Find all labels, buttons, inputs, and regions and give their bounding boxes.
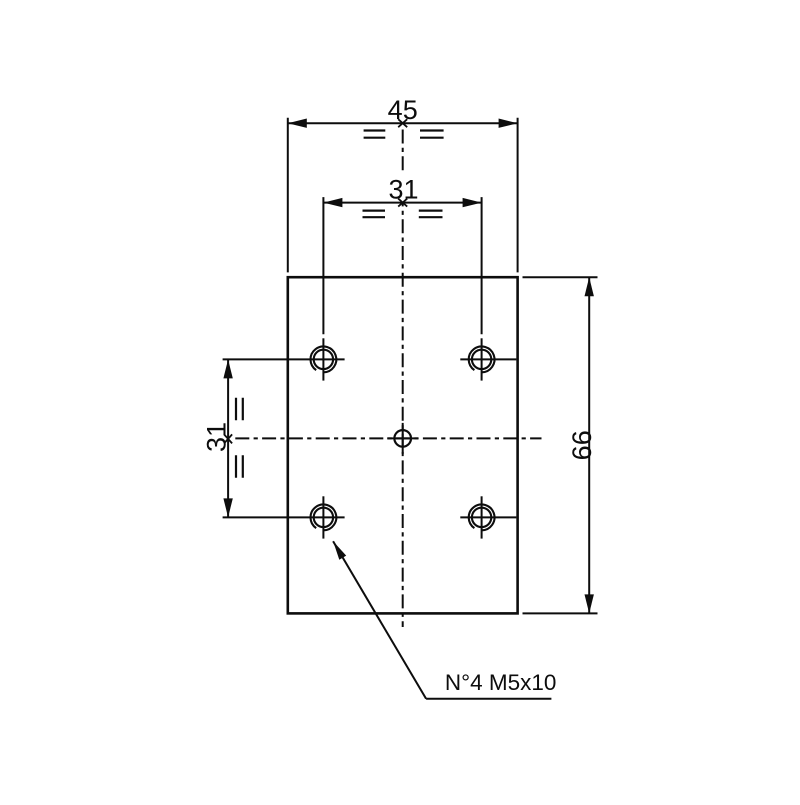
dim 31 left arrow up — [223, 359, 232, 378]
hole upper-left thread arc — [311, 347, 337, 373]
dim 31 top line — [323, 202, 481, 204]
hole lower-right thread arc — [469, 505, 495, 531]
hole lower-right vertical crosshair — [481, 496, 483, 538]
dim 45 arrow right — [499, 119, 518, 128]
leader line diagonal — [333, 541, 426, 699]
dim 31 left symmetry mark upper — [236, 398, 243, 421]
dim 31 top symmetry mark left — [363, 211, 386, 218]
leader line horizontal — [426, 698, 551, 700]
hole upper-left bore circle — [314, 350, 333, 369]
center pilot hole circle — [394, 430, 411, 447]
horizontal centerline — [235, 437, 541, 439]
dim 66 extension line bottom — [523, 612, 598, 614]
dim 31 left symmetry mark lower — [236, 455, 243, 478]
dim 31 top extension line right — [481, 197, 483, 334]
svg-text:N°4 M5x10: N°4 M5x10 — [445, 670, 557, 695]
hole upper-right horizontal crosshair — [460, 358, 516, 360]
dim 31 top symmetry mark right — [419, 211, 443, 218]
dim 31 top arrow right — [463, 198, 482, 207]
dim 66 arrow down — [585, 594, 594, 613]
dim 31 left line — [227, 359, 229, 517]
dim 66 extension line top — [523, 276, 598, 278]
hole lower-left thread arc — [311, 505, 337, 531]
leader arrow — [333, 541, 346, 559]
dim 45 line — [288, 122, 518, 124]
center pilot hole horizontal crosshair — [387, 437, 418, 439]
dim 31 left anchor cross — [224, 434, 232, 443]
svg-text:66: 66 — [567, 430, 597, 460]
hole lower-right horizontal crosshair — [460, 516, 516, 518]
svg-text:31: 31 — [388, 175, 418, 205]
hole upper-right thread arc — [469, 347, 495, 373]
svg-text:45: 45 — [388, 95, 418, 125]
dim 31 top anchor cross — [398, 199, 407, 207]
dim 31 left extension line bottom (also crosshair of lower-left hole) — [223, 516, 345, 518]
dim 31 left arrow down — [223, 498, 232, 517]
vertical centerline main segment — [402, 203, 404, 627]
vertical centerline upper segment — [402, 130, 404, 173]
plate outline — [288, 277, 518, 613]
dim 45 extension line right — [517, 118, 519, 273]
dim 66 line — [588, 277, 590, 613]
dim 31 top extension line left — [322, 197, 324, 334]
dim 31 top arrow left — [323, 198, 342, 207]
dim 31 left extension line top (also crosshair of upper-left hole) — [223, 358, 345, 360]
hole upper-left vertical crosshair — [322, 338, 324, 380]
dim 45 symmetry mark right — [420, 131, 444, 138]
dim 45 symmetry mark left — [364, 131, 386, 138]
hole upper-right vertical crosshair — [481, 338, 483, 380]
hole upper-right bore circle — [472, 350, 491, 369]
dim 45 arrow left — [288, 119, 307, 128]
hole lower-left vertical crosshair — [322, 496, 324, 538]
dim 45 anchor cross — [398, 119, 407, 127]
hole lower-left bore circle — [314, 508, 333, 527]
hole lower-right bore circle — [472, 508, 491, 527]
dim 45 extension line left — [287, 118, 289, 273]
dim 66 arrow up — [585, 277, 594, 296]
center pilot hole vertical crosshair — [402, 423, 404, 454]
